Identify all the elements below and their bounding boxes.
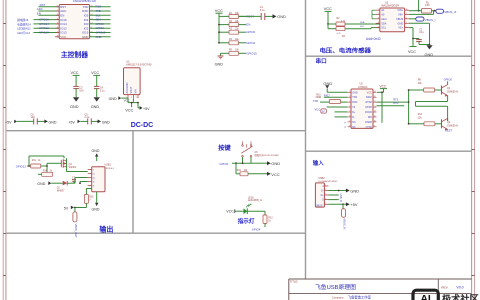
svg-text:Alert: Alert	[381, 17, 387, 21]
svg-text:GPIO0: GPIO0	[444, 78, 453, 82]
svg-text:6: 6	[406, 26, 407, 28]
svg-text:GPIO16: GPIO16	[39, 18, 49, 22]
svg-text:RXD: RXD	[96, 5, 102, 9]
svg-text:GND: GND	[102, 120, 110, 124]
svg-text:15: 15	[374, 96, 376, 98]
svg-text:V0.0: V0.0	[456, 286, 463, 290]
svg-text:+5V: +5V	[350, 202, 358, 207]
svg-text:R8: R8	[418, 79, 422, 82]
svg-text:10: 10	[374, 121, 376, 123]
svg-text:1k: 1k	[38, 160, 41, 162]
svg-text:12k: 12k	[418, 117, 423, 120]
svg-text:GSR-ESP8266-12F: GSR-ESP8266-12F	[73, 0, 97, 3]
svg-text:R2: R2	[337, 18, 341, 20]
svg-text:1k: 1k	[268, 221, 271, 223]
svg-text:5V: 5V	[64, 206, 69, 210]
svg-text:GND: GND	[271, 161, 280, 166]
svg-text:4.7k: 4.7k	[337, 33, 342, 35]
svg-text:GND: GND	[91, 105, 100, 109]
svg-text:极术社区: 极术社区	[442, 293, 479, 300]
svg-text:G: G	[93, 182, 95, 184]
svg-text:0.1u: 0.1u	[85, 116, 90, 119]
svg-text:DTR#: DTR#	[365, 106, 372, 109]
svg-text:VBUS_I: VBUS_I	[425, 18, 436, 22]
svg-text:GND: GND	[352, 91, 358, 94]
svg-text:GND: GND	[37, 182, 45, 186]
svg-text:8: 8	[406, 18, 407, 20]
svg-text:10k: 10k	[235, 29, 240, 31]
svg-text:GND: GND	[49, 120, 57, 124]
svg-text:2: 2	[349, 96, 350, 98]
svg-text:TXD: TXD	[352, 96, 357, 99]
svg-text:RXD: RXD	[352, 101, 357, 104]
svg-text:2: 2	[325, 189, 326, 191]
svg-text:VCC: VCC	[124, 99, 130, 103]
svg-text:GND: GND	[109, 97, 117, 101]
svg-text:CH340C: CH340C	[358, 86, 368, 89]
svg-text:输入: 输入	[313, 159, 324, 167]
svg-text:GND: GND	[215, 62, 224, 66]
svg-text:A1: A1	[381, 8, 385, 12]
svg-text:GND: GND	[96, 35, 102, 39]
svg-text:+5V: +5V	[5, 120, 12, 124]
svg-text:INA226AIDGSR: INA226AIDGSR	[381, 5, 399, 8]
svg-text:0.05: 0.05	[425, 5, 430, 7]
svg-text:10k: 10k	[235, 13, 240, 15]
svg-text:GND: GND	[397, 21, 403, 25]
svg-text:按键: 按键	[218, 144, 231, 152]
svg-text:继电器16: 继电器16	[17, 18, 29, 22]
svg-text:SCL: SCL	[381, 26, 387, 30]
svg-text:0: 0	[89, 200, 91, 202]
svg-text:CTS#: CTS#	[366, 126, 373, 129]
svg-text:VOUT: VOUT	[130, 86, 133, 93]
svg-text:REV:: REV:	[441, 286, 448, 290]
svg-text:R232: R232	[366, 96, 372, 99]
svg-text:NC: NC	[352, 121, 356, 124]
svg-text:+5V: +5V	[68, 120, 75, 124]
svg-text:DSR#: DSR#	[365, 121, 372, 124]
svg-text:4: 4	[378, 22, 379, 24]
svg-text:VS+: VS+	[398, 26, 403, 30]
svg-text:R11: R11	[418, 113, 423, 116]
svg-text:10k: 10k	[235, 50, 240, 52]
svg-text:10k: 10k	[235, 39, 240, 41]
svg-text:VCC: VCC	[215, 9, 223, 13]
svg-text:GPIO15: GPIO15	[246, 51, 257, 55]
svg-text:RXD: RXD	[324, 94, 330, 98]
svg-text:200R: 200R	[316, 96, 322, 99]
svg-text:GPIO14: GPIO14	[39, 22, 49, 26]
svg-text:×: ×	[344, 120, 346, 124]
svg-text:USB1: USB1	[105, 164, 112, 167]
svg-text:RTS#: RTS#	[366, 101, 373, 104]
svg-text:10U: 10U	[79, 90, 84, 93]
svg-text:VBUS_OUT: VBUS_OUT	[74, 224, 78, 238]
svg-text:LED屏W12: LED屏W12	[17, 27, 31, 31]
svg-text:4: 4	[325, 198, 326, 200]
svg-text:VCC: VCC	[71, 71, 79, 75]
svg-text:+5V: +5V	[143, 107, 150, 111]
svg-text:REST: REST	[445, 129, 453, 133]
svg-text:SDA: SDA	[360, 21, 365, 24]
svg-text:13: 13	[374, 106, 376, 108]
svg-text:U5: U5	[360, 82, 364, 85]
svg-text:VCC: VCC	[408, 50, 416, 54]
svg-text:GND: GND	[350, 188, 359, 193]
svg-text:VBUS: VBUS	[316, 205, 323, 207]
svg-text:SCL: SCL	[360, 26, 365, 28]
svg-text:GPIO15: GPIO15	[96, 31, 106, 35]
svg-text:VIN: VIN	[134, 89, 137, 93]
svg-text:GPIO12: GPIO12	[16, 165, 27, 169]
svg-text:A0: A0	[381, 12, 385, 16]
svg-text:8: 8	[349, 126, 350, 128]
svg-text:VCC: VCC	[271, 172, 280, 177]
svg-text:GND: GND	[82, 35, 88, 39]
svg-text:12: 12	[374, 111, 376, 113]
svg-text:RI#: RI#	[368, 116, 372, 119]
svg-text:GND: GND	[92, 149, 100, 153]
svg-text:Z9230S-1: Z9230S-1	[105, 168, 115, 170]
svg-text:SDA: SDA	[96, 18, 102, 22]
svg-text:TXD: TXD	[96, 9, 101, 13]
svg-text:R16: R16	[89, 197, 94, 199]
svg-text:7: 7	[406, 22, 407, 24]
svg-text:轻触开关B4.5X4.5X5MM: 轻触开关B4.5X4.5X5MM	[254, 153, 278, 157]
svg-text:9: 9	[406, 13, 407, 15]
svg-text:3: 3	[325, 194, 326, 196]
svg-text:AI: AI	[420, 293, 431, 300]
svg-text:TITLE:: TITLE:	[290, 279, 299, 283]
svg-text:×: ×	[344, 125, 346, 129]
svg-text:USB_D: USB_D	[339, 194, 342, 203]
svg-text:Company:: Company:	[332, 295, 345, 299]
svg-text:USB2: USB2	[318, 177, 325, 180]
svg-text:0.1u: 0.1u	[260, 9, 265, 12]
svg-text:SCL: SCL	[96, 13, 102, 17]
svg-text:10k: 10k	[418, 82, 423, 85]
svg-text:GPIO0: GPIO0	[246, 30, 255, 34]
svg-text:2: 2	[131, 97, 132, 99]
svg-text:飞鱼智造工作室: 飞鱼智造工作室	[348, 295, 372, 300]
svg-text:GND: GND	[277, 15, 286, 19]
svg-text:ADJ/GND: ADJ/GND	[126, 82, 129, 93]
svg-text:串口: 串口	[316, 57, 328, 65]
svg-text:5: 5	[349, 111, 350, 113]
svg-text:输出: 输出	[99, 225, 113, 234]
svg-text:D-: D-	[93, 174, 96, 176]
svg-text:VIN-: VIN-	[398, 12, 403, 16]
svg-text:3: 3	[378, 18, 379, 20]
svg-text:GPIO2: GPIO2	[246, 41, 255, 45]
svg-text:VCC: VCC	[125, 108, 133, 112]
svg-text:VBUS: VBUS	[396, 17, 403, 21]
svg-text:2: 2	[378, 13, 379, 15]
svg-text:R14: R14	[43, 171, 48, 173]
svg-text:6: 6	[349, 116, 350, 118]
svg-text:LED-0805_G: LED-0805_G	[248, 199, 262, 202]
svg-text:GND: GND	[323, 81, 332, 86]
svg-text:1: 1	[325, 185, 326, 187]
svg-text:1: 1	[378, 9, 379, 11]
svg-text:SS8050-H: SS8050-H	[447, 124, 458, 127]
svg-text:VBUS_I1: VBUS_I1	[444, 10, 457, 14]
svg-text:VCC: VCC	[324, 7, 332, 11]
svg-text:9: 9	[374, 126, 375, 128]
svg-text:有源蜂鸣14: 有源蜂鸣14	[17, 22, 31, 26]
svg-text:1: 1	[349, 91, 350, 93]
svg-text:DCD#: DCD#	[365, 111, 372, 114]
svg-text:GPIO4: GPIO4	[252, 227, 261, 231]
svg-text:4: 4	[349, 106, 350, 108]
svg-text:GPIO2: GPIO2	[96, 26, 105, 30]
svg-text:R12: R12	[237, 170, 242, 172]
svg-text:VCC: VCC	[226, 210, 234, 214]
svg-text:GPIO5: GPIO5	[219, 162, 228, 166]
svg-text:DTR: DTR	[393, 102, 398, 105]
svg-text:NC: NC	[352, 126, 356, 129]
svg-text:EN: EN	[246, 23, 250, 27]
svg-text:3: 3	[349, 101, 350, 103]
svg-text:主控制器: 主控制器	[61, 50, 88, 59]
svg-text:5: 5	[378, 26, 379, 28]
svg-text:SS8050-H: SS8050-H	[447, 91, 458, 94]
svg-text:VCC: VCC	[367, 91, 372, 94]
svg-text:GND: GND	[70, 105, 79, 109]
svg-text:G: G	[322, 200, 324, 202]
svg-text:DC-DC: DC-DC	[131, 122, 154, 129]
svg-text:VCC: VCC	[380, 85, 387, 89]
svg-text:GPIO0: GPIO0	[96, 22, 105, 26]
svg-text:D-: D-	[352, 116, 355, 119]
svg-text:指示灯: 指示灯	[238, 217, 255, 225]
svg-text:14: 14	[374, 101, 376, 103]
svg-text:VCC: VCC	[91, 71, 99, 75]
svg-text:10U: 10U	[31, 116, 36, 119]
svg-text:GND: GND	[92, 207, 100, 211]
svg-text:0.1u: 0.1u	[419, 31, 424, 34]
svg-text:TXD: TXD	[313, 99, 318, 103]
svg-text:3: 3	[136, 97, 137, 99]
svg-text:VCC: VCC	[60, 35, 66, 39]
svg-text:GND: GND	[425, 53, 434, 57]
svg-text:SI2301: SI2301	[69, 166, 77, 169]
svg-text:D-: D-	[321, 191, 324, 193]
svg-text:飞鱼USB原理图: 飞鱼USB原理图	[315, 283, 356, 291]
svg-text:5V: 5V	[322, 110, 325, 113]
svg-text:11: 11	[374, 116, 376, 118]
svg-text:LED灯C13: LED灯C13	[17, 31, 30, 35]
svg-text:VCC: VCC	[315, 107, 321, 111]
svg-text:VIN+: VIN+	[397, 8, 403, 12]
svg-text:16: 16	[374, 91, 376, 93]
svg-text:10: 10	[406, 9, 408, 11]
svg-text:SDA: SDA	[381, 21, 387, 25]
svg-text:7: 7	[349, 121, 350, 123]
svg-text:10k: 10k	[235, 21, 240, 23]
svg-text:EN: EN	[37, 12, 41, 16]
svg-text:R4: R4	[342, 36, 346, 38]
svg-text:GPIO12: GPIO12	[39, 26, 49, 30]
svg-text:R13: R13	[268, 218, 273, 220]
svg-text:R11: R11	[32, 160, 37, 162]
svg-text:0.1u: 0.1u	[100, 90, 105, 93]
svg-text:Addr:0x40: Addr:0x40	[366, 37, 381, 41]
svg-text:GPIO13: GPIO13	[39, 31, 49, 35]
svg-text:AMS1117-3.3VSOT-89: AMS1117-3.3VSOT-89	[126, 64, 152, 67]
svg-text:5: 5	[325, 203, 326, 205]
svg-text:VBUS_IN: VBUS_IN	[343, 218, 347, 229]
svg-text:电压、电流传感器: 电压、电流传感器	[320, 47, 372, 55]
svg-text:IN4007: IN4007	[57, 189, 65, 192]
svg-text:U6: U6	[254, 151, 258, 154]
